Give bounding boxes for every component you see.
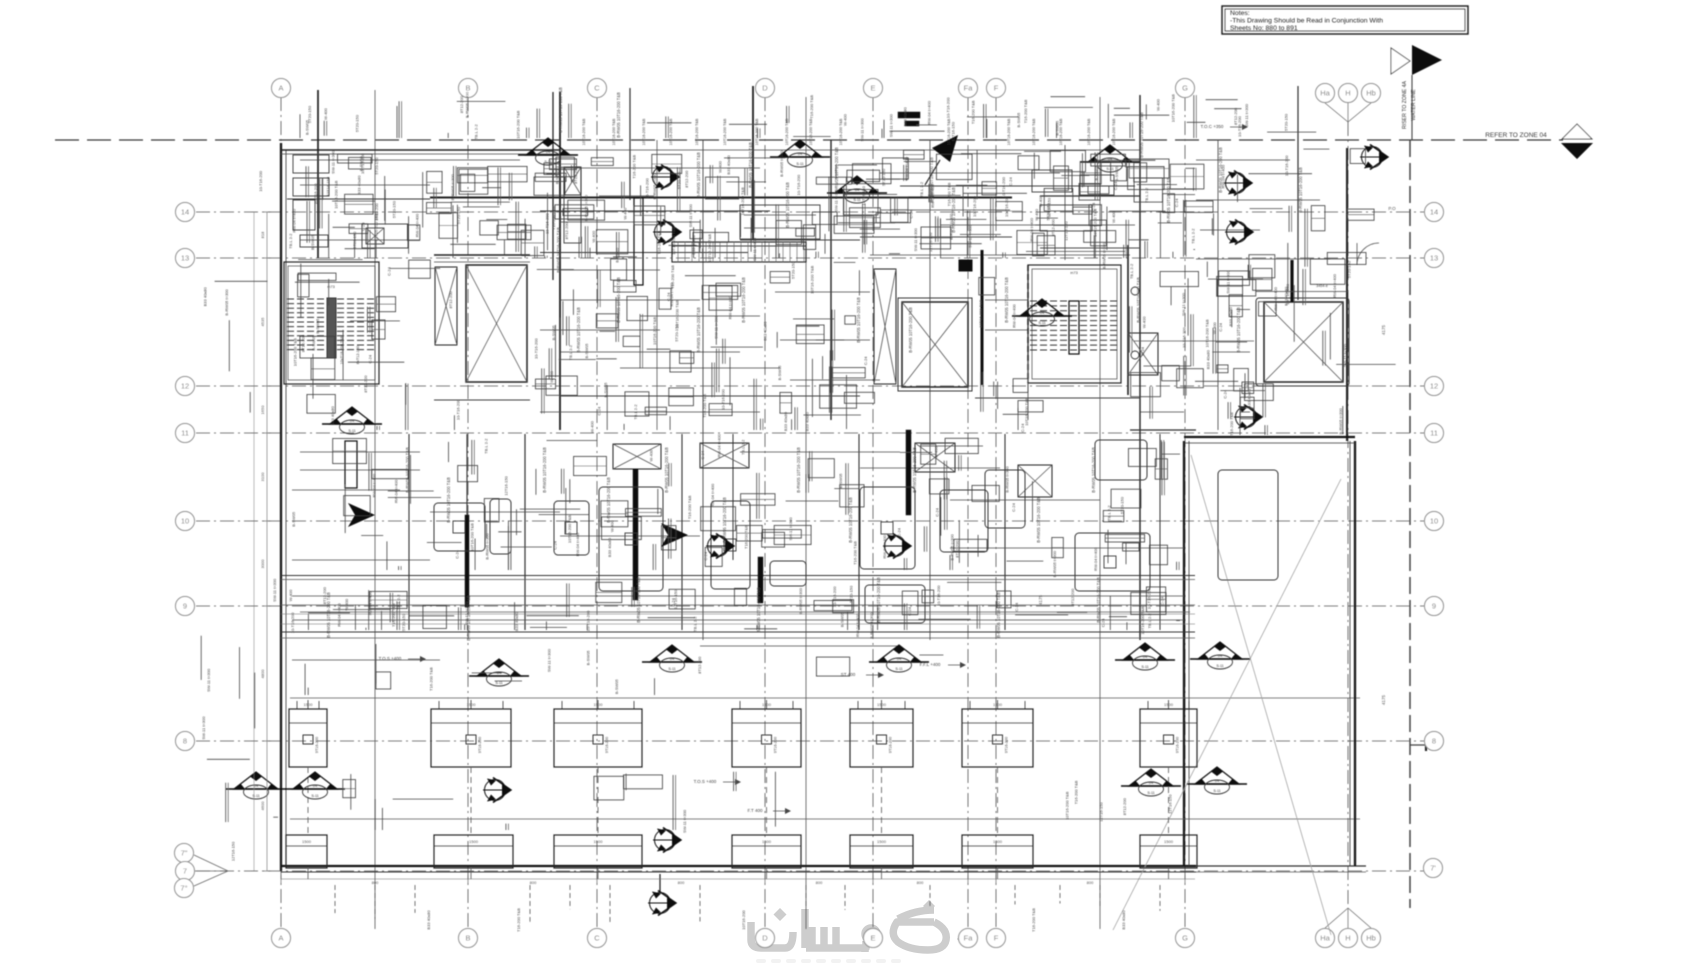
svg-text:B-RW05 10T16-200 T&B: B-RW05 10T16-200 T&B <box>1218 147 1223 193</box>
svg-text:10T16-200 T&B: 10T16-200 T&B <box>373 213 378 241</box>
svg-text:RW-04 t=400: RW-04 t=400 <box>728 295 733 319</box>
svg-text:TB.L 2-2: TB.L 2-2 <box>1106 505 1111 521</box>
svg-text:B-RW05 10T16-200 T&B: B-RW05 10T16-200 T&B <box>616 277 621 323</box>
svg-text:10-T16-200: 10-T16-200 <box>545 213 550 234</box>
svg-text:B-RW05 10T16-200 T&B: B-RW05 10T16-200 T&B <box>796 447 801 493</box>
refer-to-zone dashed line <box>55 139 1563 141</box>
svg-text:B33 40x80: B33 40x80 <box>330 405 335 425</box>
svg-text:8T12-200: 8T12-200 <box>363 375 368 393</box>
svg-text:12: 12 <box>1430 382 1438 391</box>
svg-text:S-11: S-11 <box>252 794 259 798</box>
right shaft walls <box>1354 441 1356 866</box>
svg-text:5T20-150: 5T20-150 <box>849 585 854 603</box>
svg-text:10-T16-200: 10-T16-200 <box>1181 327 1186 348</box>
svg-text:5T20-150: 5T20-150 <box>881 168 886 186</box>
svg-text:SW-11 t=300: SW-11 t=300 <box>889 113 894 137</box>
svg-text:D: D <box>762 934 768 943</box>
svg-text:11: 11 <box>1430 429 1438 438</box>
svg-text:T16-200 T&B: T16-200 T&B <box>428 667 433 691</box>
svg-text:10T16-200 T&B: 10T16-200 T&B <box>839 118 843 145</box>
svg-text:8T12-200: 8T12-200 <box>697 656 702 674</box>
svg-text:B-RW05 10T16-200 T&B: B-RW05 10T16-200 T&B <box>996 592 1001 638</box>
svg-text:C-24: C-24 <box>387 266 392 275</box>
svg-text:10-T16-200: 10-T16-200 <box>946 97 951 118</box>
svg-text:B-RW05 10T16-200 T&B: B-RW05 10T16-200 T&B <box>1096 577 1101 623</box>
svg-text:C-24: C-24 <box>935 507 940 516</box>
svg-text:8T12-200: 8T12-200 <box>1233 107 1238 125</box>
svg-text:8T12-200: 8T12-200 <box>1070 588 1075 606</box>
detail clutter <box>338 154 373 163</box>
svg-text:10T16-200 T&B: 10T16-200 T&B <box>1204 319 1209 347</box>
svg-text:10T16-200 T&B: 10T16-200 T&B <box>785 118 789 145</box>
column bubbles top <box>272 79 291 98</box>
svg-text:B-SW05: B-SW05 <box>615 247 620 263</box>
svg-text:10: 10 <box>1430 517 1438 526</box>
svg-text:1500: 1500 <box>762 839 772 844</box>
svg-text:G: G <box>1182 84 1188 93</box>
svg-text:RW-04 t=400: RW-04 t=400 <box>1332 273 1337 297</box>
svg-text:B-RW05 10T16-200 T&B: B-RW05 10T16-200 T&B <box>466 595 471 641</box>
svg-text:SW-11 t=300: SW-11 t=300 <box>688 203 693 227</box>
svg-text:B-RW05 t=300: B-RW05 t=300 <box>1004 466 1009 493</box>
svg-text:W-400: W-400 <box>1111 210 1116 222</box>
svg-text:Sheets No: 880 to 891: Sheets No: 880 to 891 <box>1230 25 1298 32</box>
svg-text:12T16-150: 12T16-150 <box>503 475 508 495</box>
svg-text:1500: 1500 <box>993 702 1003 707</box>
svg-text:9T16-200: 9T16-200 <box>1176 737 1180 753</box>
svg-text:WATER LINE: WATER LINE <box>1411 89 1417 121</box>
svg-text:10T16-200 T&B: 10T16-200 T&B <box>1059 118 1063 145</box>
svg-text:12T16-150: 12T16-150 <box>1047 197 1052 217</box>
svg-text:SW-11 t=300: SW-11 t=300 <box>859 118 864 142</box>
svg-text:A: A <box>278 934 283 943</box>
svg-text:T16-200 T&B: T16-200 T&B <box>1073 780 1078 804</box>
svg-text:B-RW05 t=300: B-RW05 t=300 <box>869 612 874 639</box>
svg-text:TB.L 2-2: TB.L 2-2 <box>288 233 293 249</box>
svg-text:C-24: C-24 <box>1008 176 1013 185</box>
beam line y198 <box>430 197 1012 199</box>
row bubbles left <box>176 203 195 222</box>
svg-text:1500: 1500 <box>594 839 604 844</box>
svg-text:m73: m73 <box>1070 271 1077 275</box>
svg-text:12: 12 <box>181 382 189 391</box>
svg-text:C-24: C-24 <box>863 356 868 365</box>
svg-text:10-T16-200: 10-T16-200 <box>534 338 539 359</box>
svg-text:S-11: S-11 <box>668 667 675 671</box>
X brace diagonals <box>1191 455 1331 935</box>
svg-text:10T16-200 T&B: 10T16-200 T&B <box>1087 118 1091 145</box>
svg-text:3000: 3000 <box>260 559 265 569</box>
svg-text:B-SW05: B-SW05 <box>311 335 316 351</box>
svg-text:8T12-200: 8T12-200 <box>684 170 689 188</box>
svg-text:4600: 4600 <box>260 801 265 811</box>
svg-text:B-RW05 t=300: B-RW05 t=300 <box>1052 550 1057 577</box>
svg-text:10-T16-200: 10-T16-200 <box>972 195 977 216</box>
svg-text:TB.L 2-2: TB.L 2-2 <box>474 124 479 140</box>
horizontal grid lines <box>196 211 1424 213</box>
svg-text:B-RW05 10T16-200 T&B: B-RW05 10T16-200 T&B <box>558 87 563 133</box>
svg-text:4800: 4800 <box>260 669 265 679</box>
svg-text:C-24: C-24 <box>360 222 365 231</box>
svg-text:7°: 7° <box>180 884 187 893</box>
row bubbles right <box>1425 203 1444 222</box>
svg-text:B33 40x80: B33 40x80 <box>903 106 908 126</box>
leaders Ha H Hb top <box>1325 103 1348 122</box>
svg-text:SW-11 t=300: SW-11 t=300 <box>968 224 973 248</box>
svg-text:3100: 3100 <box>260 472 265 482</box>
svg-text:SW-11 t=300: SW-11 t=300 <box>206 668 211 692</box>
svg-text:04: 04 <box>546 149 551 154</box>
svg-text:10-T16-200: 10-T16-200 <box>258 170 263 191</box>
svg-text:W-400: W-400 <box>1156 98 1161 110</box>
svg-text:H: H <box>1345 89 1350 98</box>
svg-text:4175: 4175 <box>1381 694 1386 705</box>
elevator core 3 <box>1256 298 1349 386</box>
svg-text:B-SW05: B-SW05 <box>1094 165 1099 181</box>
elevator core 2 <box>874 269 896 384</box>
svg-text:04: 04 <box>254 783 259 788</box>
svg-text:B-SW05: B-SW05 <box>315 318 320 334</box>
svg-text:B33 40x80: B33 40x80 <box>356 175 361 195</box>
leaders 7 left <box>194 855 228 871</box>
note box <box>1222 6 1468 34</box>
zone flag triangles right <box>1562 124 1592 139</box>
svg-text:B-RW05 t=300: B-RW05 t=300 <box>450 173 455 200</box>
svg-text:10T16-200 T&B: 10T16-200 T&B <box>1112 118 1116 145</box>
svg-text:B33 40x80: B33 40x80 <box>426 910 431 930</box>
svg-text:B-RW05 t=300: B-RW05 t=300 <box>779 150 784 177</box>
svg-text:B-SW05: B-SW05 <box>603 382 608 398</box>
svg-text:B-RW05 t=300: B-RW05 t=300 <box>224 289 229 316</box>
svg-text:B-RW05 10T16-200 T&B: B-RW05 10T16-200 T&B <box>556 227 561 273</box>
dark top blobs near Fa <box>898 112 920 118</box>
svg-text:W-400: W-400 <box>1034 208 1039 220</box>
svg-text:10T16-200 T&B: 10T16-200 T&B <box>1007 118 1011 145</box>
stair core 2 <box>1028 265 1121 383</box>
svg-text:12T16-150: 12T16-150 <box>231 841 236 861</box>
svg-text:C-24: C-24 <box>700 450 705 459</box>
svg-text:10-T16-200: 10-T16-200 <box>721 388 726 409</box>
markers mid/low <box>1115 643 1175 670</box>
svg-text:B-RW05 10T16-200 T&B: B-RW05 10T16-200 T&B <box>696 307 701 353</box>
svg-text:C-24: C-24 <box>1218 322 1223 331</box>
svg-text:B-RW05 t=300: B-RW05 t=300 <box>584 194 589 221</box>
svg-text:B-SW05: B-SW05 <box>551 325 556 341</box>
svg-text:W-400: W-400 <box>590 420 595 432</box>
svg-text:818: 818 <box>260 231 265 238</box>
svg-text:B-RW05 10T16-200 T&B: B-RW05 10T16-200 T&B <box>326 592 331 638</box>
svg-text:S-11: S-11 <box>495 681 502 685</box>
svg-text:Hb: Hb <box>1366 934 1376 943</box>
svg-text:10-T16-200: 10-T16-200 <box>936 585 941 606</box>
svg-text:T16-200 T&B: T16-200 T&B <box>1023 99 1028 123</box>
svg-text:B-RW05 t=300: B-RW05 t=300 <box>484 533 489 560</box>
svg-text:C-24: C-24 <box>368 354 373 363</box>
svg-text:Fa: Fa <box>964 84 974 93</box>
svg-text:9T16-200: 9T16-200 <box>889 737 893 753</box>
svg-text:B33 40x80: B33 40x80 <box>1283 286 1288 306</box>
svg-text:B-RW05 10T16-200 T&B: B-RW05 10T16-200 T&B <box>696 152 701 198</box>
svg-text:B33 40x80: B33 40x80 <box>691 235 696 255</box>
svg-text:800: 800 <box>372 880 379 885</box>
svg-text:SW-11 t=300: SW-11 t=300 <box>1343 343 1348 367</box>
svg-text:B-RW05 10T16-200 T&B: B-RW05 10T16-200 T&B <box>908 307 913 353</box>
svg-text:B-RW05 10T16-200 T&B: B-RW05 10T16-200 T&B <box>834 147 839 193</box>
column bubbles bottom <box>272 929 291 948</box>
svg-text:10T16-200 T&B: 10T16-200 T&B <box>470 523 475 551</box>
svg-text:11: 11 <box>181 429 189 438</box>
svg-text:B-RW05 10T16-200 T&B: B-RW05 10T16-200 T&B <box>1004 277 1009 323</box>
svg-text:5T20-150: 5T20-150 <box>790 261 795 279</box>
svg-text:SW-11 t=300: SW-11 t=300 <box>547 648 552 672</box>
svg-text:10T16-200 T&B: 10T16-200 T&B <box>723 118 727 145</box>
small inner squares <box>453 521 465 533</box>
svg-text:5T20-150: 5T20-150 <box>374 157 379 175</box>
svg-text:TB.L 2-2: TB.L 2-2 <box>1147 612 1152 628</box>
svg-text:W-400: W-400 <box>1141 316 1146 328</box>
svg-text:C-24: C-24 <box>1020 423 1025 432</box>
svg-text:10T16-200 T&B: 10T16-200 T&B <box>1024 397 1029 425</box>
riser flag top <box>1391 48 1410 74</box>
svg-text:10-T16-200: 10-T16-200 <box>1146 588 1151 609</box>
svg-text:10T16-200 T&B: 10T16-200 T&B <box>740 187 745 215</box>
svg-text:5T20-150: 5T20-150 <box>1284 113 1289 131</box>
svg-text:W-400: W-400 <box>1038 195 1043 207</box>
svg-text:8: 8 <box>1432 737 1436 746</box>
svg-text:8T12-200: 8T12-200 <box>1051 218 1056 236</box>
svg-text:RW-04 t=400: RW-04 t=400 <box>414 213 419 237</box>
svg-text:10T16-200 T&B: 10T16-200 T&B <box>947 118 951 145</box>
markers upper band <box>770 140 830 167</box>
svg-text:B-SW05: B-SW05 <box>291 511 296 527</box>
marker below bottom wall <box>659 874 661 892</box>
svg-text:8T12-200: 8T12-200 <box>955 540 960 558</box>
upper band beam horizontals <box>300 159 520 161</box>
svg-text:B-RW05 10T16-200 T&B: B-RW05 10T16-200 T&B <box>929 157 934 203</box>
svg-text:RW-04 t=400: RW-04 t=400 <box>337 602 342 626</box>
svg-text:9T16-200: 9T16-200 <box>774 737 778 753</box>
svg-text:C-24: C-24 <box>1100 618 1105 627</box>
svg-text:SW-11 t=300: SW-11 t=300 <box>752 237 757 261</box>
svg-text:10T16-200 T&B: 10T16-200 T&B <box>755 118 759 145</box>
svg-text:04: 04 <box>670 656 675 661</box>
svg-text:B-RW05 10T16-200 T&B: B-RW05 10T16-200 T&B <box>1236 307 1241 353</box>
svg-text:800: 800 <box>917 880 924 885</box>
svg-text:B33 40x80: B33 40x80 <box>1228 306 1233 326</box>
svg-text:B-RW05 10T16-200 T&B: B-RW05 10T16-200 T&B <box>722 497 727 543</box>
svg-text:10T16-200 T&B: 10T16-200 T&B <box>1093 208 1098 236</box>
footing row 7 <box>286 835 327 868</box>
svg-text:1500: 1500 <box>469 839 479 844</box>
svg-text:RW-04 t=400: RW-04 t=400 <box>292 208 297 232</box>
svg-text:B-RW05 10T16-200 T&B: B-RW05 10T16-200 T&B <box>912 447 917 493</box>
svg-text:B-SW05: B-SW05 <box>839 611 844 627</box>
svg-text:10T16-200 T&B: 10T16-200 T&B <box>1065 791 1070 819</box>
svg-text:B-SW05: B-SW05 <box>585 650 590 666</box>
svg-text:Ha: Ha <box>1320 89 1330 98</box>
svg-text:RW-04 t=400: RW-04 t=400 <box>904 156 909 180</box>
svg-text:10T16-200 T&B: 10T16-200 T&B <box>1170 94 1175 122</box>
svg-text:RW-04 t=400: RW-04 t=400 <box>368 591 373 615</box>
svg-text:C-24: C-24 <box>1160 596 1165 605</box>
svg-text:B-RW05 10T16-200 T&B: B-RW05 10T16-200 T&B <box>856 297 861 343</box>
svg-text:12T16-150: 12T16-150 <box>861 185 866 205</box>
svg-text:1500: 1500 <box>877 839 887 844</box>
svg-text:SW-11 t=300: SW-11 t=300 <box>331 150 336 174</box>
svg-text:D: D <box>762 84 768 93</box>
svg-text:B-RW05 10T16-200 T&B: B-RW05 10T16-200 T&B <box>848 497 853 543</box>
svg-text:SW-11 t=300: SW-11 t=300 <box>682 809 687 833</box>
svg-text:TB.L 2-2: TB.L 2-2 <box>741 439 746 455</box>
svg-text:800: 800 <box>816 880 823 885</box>
svg-text:T16-200 T&B: T16-200 T&B <box>656 230 661 254</box>
svg-text:TB.L 2-2: TB.L 2-2 <box>693 616 698 632</box>
svg-text:1650: 1650 <box>260 405 265 415</box>
svg-text:SW-11 t=300: SW-11 t=300 <box>913 227 918 251</box>
svg-text:12T16-150: 12T16-150 <box>1168 794 1173 814</box>
svg-text:10T16-200 T&B: 10T16-200 T&B <box>582 118 586 145</box>
stair2 upper clutter rects <box>1032 170 1072 192</box>
svg-text:10T16-200 T&B: 10T16-200 T&B <box>809 265 814 293</box>
right wall at G <box>1183 441 1185 866</box>
svg-text:B-RW05 t=300: B-RW05 t=300 <box>465 91 470 118</box>
svg-text:B-RW05 t=300: B-RW05 t=300 <box>652 172 657 199</box>
svg-text:1500: 1500 <box>594 702 604 707</box>
svg-text:04: 04 <box>1218 653 1223 658</box>
svg-text:5T20-150: 5T20-150 <box>677 171 682 189</box>
svg-text:G: G <box>1182 934 1188 943</box>
svg-text:B-RW05 10T16-200 T&B: B-RW05 10T16-200 T&B <box>446 477 451 523</box>
svg-text:S-11: S-11 <box>796 162 803 166</box>
svg-text:04: 04 <box>350 418 355 423</box>
svg-text:1500: 1500 <box>302 839 312 844</box>
svg-text:W-400: W-400 <box>344 598 349 610</box>
svg-text:8T12-200: 8T12-200 <box>448 291 453 309</box>
svg-text:B-RW05 10T16-200 T&B: B-RW05 10T16-200 T&B <box>756 587 761 633</box>
svg-text:10T16-200: 10T16-200 <box>741 910 746 930</box>
svg-text:C-24: C-24 <box>1011 502 1016 511</box>
leaders Ha H Hb bottom <box>1325 908 1348 928</box>
stair core 1 <box>284 262 379 384</box>
svg-text:10-T16-200: 10-T16-200 <box>832 586 837 607</box>
right wall columns of stair 2 <box>1127 245 1129 395</box>
svg-text:B-RW05 10T16-200 T&B: B-RW05 10T16-200 T&B <box>405 447 410 493</box>
svg-text:8xT12-150: 8xT12-150 <box>356 346 360 364</box>
svg-text:10T16-200 T&B: 10T16-200 T&B <box>516 110 521 138</box>
svg-text:C-24: C-24 <box>1140 346 1145 355</box>
svg-text:B-RW05 10T16-200 T&B: B-RW05 10T16-200 T&B <box>576 307 581 353</box>
svg-text:10: 10 <box>181 517 189 526</box>
svg-text:9: 9 <box>1432 602 1436 611</box>
svg-text:S-11: S-11 <box>1106 167 1113 171</box>
svg-text:S-11: S-11 <box>895 667 902 671</box>
svg-text:10T16-200 T&B: 10T16-200 T&B <box>669 118 673 145</box>
svg-text:E: E <box>870 934 875 943</box>
svg-text:RW-04 t=400: RW-04 t=400 <box>1093 547 1098 571</box>
svg-text:B33 40x80: B33 40x80 <box>783 411 788 431</box>
svg-text:10-T16-200: 10-T16-200 <box>1001 176 1006 197</box>
svg-text:E: E <box>870 84 875 93</box>
svg-text:SW-11 t=300: SW-11 t=300 <box>272 578 277 602</box>
svg-text:H: H <box>1345 934 1350 943</box>
bottom dimension line <box>281 878 1195 880</box>
svg-text:A: A <box>278 84 283 93</box>
svg-text:RW-04 t=400: RW-04 t=400 <box>575 532 580 556</box>
svg-text:W-400: W-400 <box>1212 322 1217 334</box>
svg-text:1500: 1500 <box>1164 702 1174 707</box>
svg-text:W-400: W-400 <box>549 370 554 382</box>
svg-text:C: C <box>594 84 600 93</box>
svg-text:RW-04 t=400: RW-04 t=400 <box>1273 286 1278 310</box>
H wall upper extension <box>1346 148 1348 441</box>
svg-text:B-RW05 10T16-200 T&B: B-RW05 10T16-200 T&B <box>748 142 753 188</box>
watermark khamsat word drawn as paths <box>751 900 967 952</box>
svg-text:T16-200 T&B: T16-200 T&B <box>1031 908 1036 932</box>
left dimension chain <box>266 212 268 871</box>
svg-text:S-11: S-11 <box>1216 664 1223 668</box>
svg-text:Fa: Fa <box>964 934 974 943</box>
elevator core 1 <box>434 254 530 256</box>
svg-text:Ha: Ha <box>1320 934 1330 943</box>
svg-text:F: F <box>994 934 999 943</box>
mid band room outlines <box>434 503 485 551</box>
svg-text:SW-11 t=300: SW-11 t=300 <box>201 716 206 740</box>
footing center vertical dashes <box>307 767 309 835</box>
svg-text:4535: 4535 <box>260 317 265 327</box>
svg-text:C-24: C-24 <box>703 551 708 560</box>
svg-text:T16-200 T&B: T16-200 T&B <box>670 265 675 289</box>
svg-text:TB.L 2-2: TB.L 2-2 <box>1129 263 1134 279</box>
svg-text:S-11: S-11 <box>853 198 860 202</box>
svg-text:W-400: W-400 <box>933 446 938 458</box>
svg-text:12T16-150: 12T16-150 <box>928 232 933 252</box>
svg-text:B-RW05 10T16-200 T&B: B-RW05 10T16-200 T&B <box>542 447 547 493</box>
svg-text:B-SW05: B-SW05 <box>1016 112 1021 128</box>
svg-text:B33 40x80: B33 40x80 <box>762 321 767 341</box>
svg-text:10-T16-200: 10-T16-200 <box>796 174 801 195</box>
svg-text:10-T16-200: 10-T16-200 <box>313 183 318 204</box>
svg-text:T16-200 T&B: T16-200 T&B <box>551 206 556 230</box>
svg-text:RISER TO ZONE 4A: RISER TO ZONE 4A <box>1402 80 1408 128</box>
svg-text:SW-11 t=300: SW-11 t=300 <box>1244 103 1249 127</box>
svg-text:1500: 1500 <box>762 702 772 707</box>
svg-text:S-11: S-11 <box>311 794 318 798</box>
door arc <box>1357 243 1379 265</box>
svg-text:B-RW05 t=300: B-RW05 t=300 <box>1338 407 1343 434</box>
svg-text:4175: 4175 <box>1038 594 1043 605</box>
svg-text:SW-11 t=300: SW-11 t=300 <box>1181 292 1186 316</box>
small x boxes <box>564 167 581 195</box>
svg-text:10-T16-200: 10-T16-200 <box>585 610 590 631</box>
svg-text:C-24: C-24 <box>909 209 914 218</box>
svg-text:T16-200 T&B: T16-200 T&B <box>853 541 858 565</box>
svg-text:10T16-200 T&B: 10T16-200 T&B <box>652 316 657 344</box>
hatched beam C-D <box>672 242 806 262</box>
svg-text:T16-200 T&B: T16-200 T&B <box>702 394 707 418</box>
svg-text:T16-200 T&B: T16-200 T&B <box>631 155 636 179</box>
svg-text:8T12-200: 8T12-200 <box>573 166 578 184</box>
svg-text:04: 04 <box>1149 780 1154 785</box>
svg-text:10T16-200 T&B: 10T16-200 T&B <box>671 226 676 254</box>
svg-text:RW-04 t=400: RW-04 t=400 <box>1011 304 1016 328</box>
svg-text:10-T16-200: 10-T16-200 <box>1284 155 1289 176</box>
svg-text:B-RW05 10T16-200 T&B: B-RW05 10T16-200 T&B <box>876 577 881 623</box>
svg-text:C-24: C-24 <box>1174 198 1179 207</box>
grid line H <box>1347 122 1349 905</box>
svg-text:5T20-150: 5T20-150 <box>401 613 406 631</box>
svg-text:RW-04 t=400: RW-04 t=400 <box>394 479 399 503</box>
svg-text:C-24: C-24 <box>454 549 459 558</box>
